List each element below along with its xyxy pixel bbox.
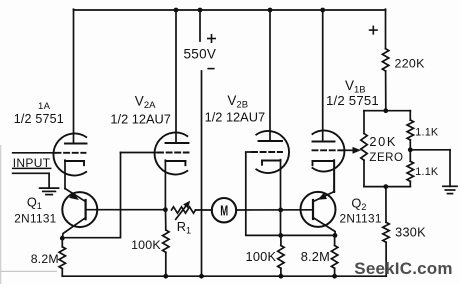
- svg-text:220K: 220K: [395, 56, 426, 70]
- svg-text:SeekIC.com: SeekIC.com: [354, 259, 452, 278]
- svg-text:8.2M: 8.2M: [31, 252, 59, 266]
- svg-text:INPUT: INPUT: [13, 156, 51, 170]
- svg-text:1/2 5751: 1/2 5751: [14, 112, 64, 126]
- svg-text:330K: 330K: [395, 225, 426, 239]
- svg-text:100K: 100K: [246, 249, 277, 264]
- svg-text:100K: 100K: [131, 238, 161, 252]
- svg-text:1/2 12AU7: 1/2 12AU7: [110, 111, 170, 126]
- svg-text:ZERO: ZERO: [369, 152, 403, 164]
- svg-text:2N1131: 2N1131: [340, 211, 382, 225]
- svg-text:20K: 20K: [369, 134, 397, 149]
- svg-text:550V: 550V: [184, 46, 217, 61]
- svg-text:1/2 12AU7: 1/2 12AU7: [205, 110, 265, 125]
- svg-text:8.2M: 8.2M: [301, 249, 330, 264]
- svg-text:1/2 5751: 1/2 5751: [326, 93, 379, 108]
- svg-text:1.1K: 1.1K: [415, 127, 439, 139]
- svg-text:2N1131: 2N1131: [14, 211, 56, 225]
- svg-text:M: M: [220, 202, 228, 219]
- svg-text:1A: 1A: [38, 101, 51, 112]
- svg-text:1.1K: 1.1K: [415, 166, 439, 178]
